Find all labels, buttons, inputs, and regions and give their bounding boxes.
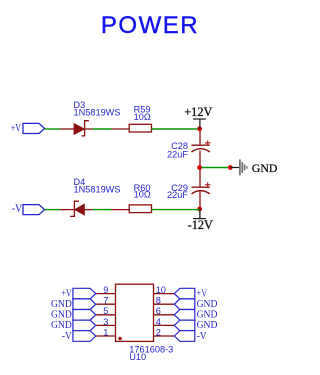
svg-text:-V: -V xyxy=(197,331,207,342)
svg-text:GND: GND xyxy=(197,299,218,310)
svg-text:10: 10 xyxy=(156,285,166,295)
svg-text:10Ω: 10Ω xyxy=(134,112,151,122)
svg-text:22uF: 22uF xyxy=(167,149,188,159)
capacitor C29 xyxy=(192,169,211,209)
svg-text:22uF: 22uF xyxy=(167,190,188,200)
port +V left xyxy=(73,288,96,299)
pin 3 xyxy=(96,324,116,326)
svg-text:1N5819WS: 1N5819WS xyxy=(74,107,121,117)
wire D4 to R60 xyxy=(93,209,112,211)
pin 4 xyxy=(154,324,175,326)
pin 2 xyxy=(154,335,175,337)
diode D3 xyxy=(60,121,92,136)
svg-text:U10: U10 xyxy=(129,352,146,362)
svg-text:-V: -V xyxy=(12,203,23,215)
port +V xyxy=(11,123,45,135)
pin 1 xyxy=(96,335,116,337)
svg-text:2: 2 xyxy=(156,327,161,337)
svg-text:-12V: -12V xyxy=(188,218,213,232)
svg-text:+12V: +12V xyxy=(184,105,212,119)
resistor R60 xyxy=(112,205,152,213)
svg-text:POWER: POWER xyxy=(101,12,199,39)
port GND right 3 xyxy=(174,310,195,321)
svg-text:7: 7 xyxy=(103,296,108,306)
pin 8 xyxy=(154,303,175,305)
port GND left 3 xyxy=(73,310,96,321)
pin 10 xyxy=(154,293,175,295)
port GND right 2 xyxy=(174,299,195,310)
svg-text:GND: GND xyxy=(51,310,72,321)
junction +12V node xyxy=(197,126,202,131)
port +V right xyxy=(174,288,195,299)
wire GND node to ground xyxy=(202,167,231,169)
svg-text:GND: GND xyxy=(252,161,278,175)
pin 9 xyxy=(96,293,116,295)
svg-text:GND: GND xyxy=(197,310,218,321)
junction at ground pin xyxy=(228,165,233,170)
capacitor C28 xyxy=(192,131,211,168)
port -V right xyxy=(174,331,195,342)
svg-text:4: 4 xyxy=(156,317,161,327)
power port -12V xyxy=(188,209,213,232)
svg-text:10Ω: 10Ω xyxy=(134,190,151,200)
IC U10 body xyxy=(116,284,154,341)
junction GND node xyxy=(197,165,202,170)
pin 6 xyxy=(154,314,175,316)
pin 7 xyxy=(96,303,116,305)
power port +12V xyxy=(184,105,212,129)
svg-text:GND: GND xyxy=(197,320,218,331)
port GND right 4 xyxy=(174,320,195,331)
svg-text:5: 5 xyxy=(103,306,108,316)
diode D4 xyxy=(60,201,92,216)
svg-text:+V: +V xyxy=(197,288,208,299)
svg-text:GND: GND xyxy=(51,299,72,310)
wire R59 to +12V node xyxy=(152,128,200,130)
svg-text:+V: +V xyxy=(61,288,72,299)
pin 1 marker xyxy=(118,337,122,341)
port -V left xyxy=(73,331,96,342)
port GND left 4 xyxy=(73,320,96,331)
svg-text:6: 6 xyxy=(156,306,161,316)
wire port to D4 xyxy=(45,209,61,211)
svg-text:3: 3 xyxy=(103,317,108,327)
wire R60 to -12V node xyxy=(152,209,200,211)
port GND left 2 xyxy=(73,299,96,310)
svg-text:1: 1 xyxy=(103,327,108,337)
resistor R59 xyxy=(112,124,152,132)
svg-text:-V: -V xyxy=(62,331,72,342)
junction -12V node xyxy=(197,207,202,212)
svg-text:GND: GND xyxy=(51,320,72,331)
wire D3 to R59 xyxy=(93,128,112,130)
svg-text:1N5819WS: 1N5819WS xyxy=(74,184,121,194)
pin 5 xyxy=(96,314,116,316)
ground GND symbol xyxy=(230,159,247,175)
svg-text:8: 8 xyxy=(156,296,161,306)
port -V xyxy=(12,203,45,215)
svg-text:9: 9 xyxy=(103,285,108,295)
wire port to D3 xyxy=(45,128,61,130)
svg-text:+V: +V xyxy=(11,123,22,135)
